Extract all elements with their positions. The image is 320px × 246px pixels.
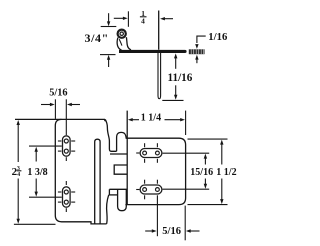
svg-text:1/16: 1/16 bbox=[208, 31, 228, 43]
svg-text:3/4": 3/4" bbox=[85, 31, 109, 45]
dimension 5/16 (top of left view) bbox=[41, 88, 80, 135]
dimension 1/4 left extension line bbox=[127, 11, 129, 26]
plate left edge and bottom bbox=[55, 119, 106, 223]
dimension 1/16 bottom arrow (up) bbox=[196, 59, 198, 63]
dimension 3/4 bottom arrow (up) bbox=[108, 59, 110, 67]
dimension 1 1/2 (plate height) bbox=[188, 139, 237, 205]
dimension 2 3/4 (left) bbox=[12, 120, 56, 224]
plate left edge / extension line bbox=[126, 111, 128, 205]
lower slot (vertical slotted hole) bbox=[58, 181, 75, 212]
knuckle top line bbox=[110, 153, 127, 155]
curl neck inner line bbox=[119, 39, 122, 45]
svg-text:1 3/8: 1 3/8 bbox=[27, 167, 47, 178]
svg-text:5/16: 5/16 bbox=[49, 88, 67, 99]
hatched leaf end bbox=[189, 49, 205, 54]
curl neck right edge bbox=[126, 37, 131, 50]
upper horizontal slot bbox=[136, 143, 162, 163]
slot centre extension lines to 15/16 bbox=[163, 152, 210, 154]
dimension 3/4 top arrow (down) bbox=[108, 13, 110, 22]
lower horizontal slot bbox=[136, 180, 162, 200]
lower knuckle throat top bbox=[109, 188, 127, 190]
top dome tab bbox=[117, 132, 127, 151]
knuckle bar (rounded top) bbox=[95, 139, 100, 224]
dimension 15/16 (slot spacing) bbox=[190, 154, 213, 189]
corner dot where plate meets knuckle bbox=[104, 119, 106, 121]
dimension 1/16 top arrow (down) bbox=[195, 44, 198, 49]
svg-text:11/16: 11/16 bbox=[168, 72, 193, 84]
svg-text:1 1/2: 1 1/2 bbox=[216, 167, 236, 178]
dimension 1/4 left arrow (points right) bbox=[114, 17, 124, 19]
svg-text:4: 4 bbox=[141, 16, 145, 25]
dimension 1 3/8 (between slot centers) bbox=[27, 146, 61, 197]
horizontal leaf (filled bar) bbox=[119, 50, 187, 53]
curl neck left edge bbox=[117, 38, 121, 50]
dimension 1 1/4 (top width) bbox=[128, 111, 186, 135]
vertical leaf (below horizontal leaf) bbox=[158, 53, 161, 99]
dimension 3/4 bottom extension line bbox=[100, 54, 116, 56]
dimension 3/4 top extension line bbox=[101, 26, 117, 28]
dimension 5/16 (bottom) bbox=[145, 195, 199, 240]
plate top edge with left extension bbox=[15, 118, 105, 120]
lower knuckle throat bottom bbox=[109, 194, 118, 196]
plate right S-curve edge bbox=[105, 119, 117, 151]
curl pin bbox=[120, 32, 123, 35]
curl outer circle (rolled knuckle) bbox=[118, 30, 126, 38]
svg-text:4: 4 bbox=[17, 172, 20, 178]
throat left stub bbox=[108, 189, 110, 195]
plate outline bbox=[125, 138, 185, 204]
dimension 11/16 bottom extension line bbox=[162, 99, 183, 101]
bottom U tab bbox=[118, 189, 127, 210]
dimension 1/4 fraction text bbox=[140, 9, 147, 26]
svg-text:15/16: 15/16 bbox=[190, 167, 213, 178]
upper slot (vertical slotted hole) bbox=[58, 136, 75, 161]
svg-text:5/16: 5/16 bbox=[162, 226, 181, 237]
dimension 1/16 bracket bbox=[197, 36, 206, 43]
dimension 11/16 bottom arrow (down) bbox=[175, 85, 177, 95]
svg-text:1 1/4: 1 1/4 bbox=[141, 112, 161, 123]
dimension 1/4 right arrow (points left) bbox=[164, 18, 174, 20]
right wiggly edge lower bbox=[107, 195, 109, 224]
vertical leaf extension above bbox=[158, 11, 160, 50]
middle tab (open right) bbox=[114, 165, 127, 174]
dimension 11/16 top arrow (up) bbox=[175, 58, 177, 69]
